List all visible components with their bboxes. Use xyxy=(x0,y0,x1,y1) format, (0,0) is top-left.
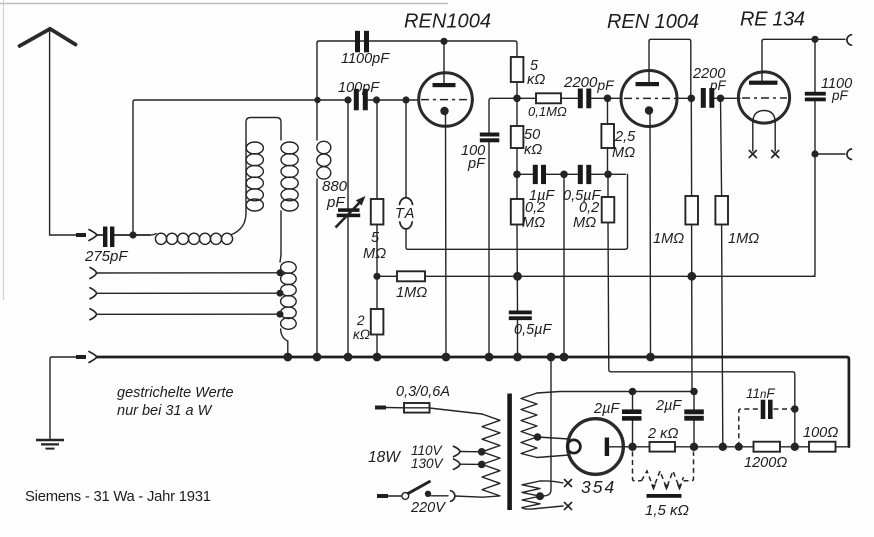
svg-text:REN 1004: REN 1004 xyxy=(607,11,700,33)
capacitor 2uF second xyxy=(684,392,704,447)
svg-text:1MΩ: 1MΩ xyxy=(728,231,759,247)
node bus heater drop xyxy=(547,353,556,362)
wire 110V tap xyxy=(460,451,482,453)
node antenna/tank riser xyxy=(129,231,136,238)
node L4 tap 2 xyxy=(277,290,284,297)
antenna terminal plug dash xyxy=(76,233,86,237)
wire ground lead xyxy=(50,357,76,440)
rectifier tube 354 xyxy=(567,419,632,475)
svg-text:RE 134: RE 134 xyxy=(740,9,806,31)
node TA branch xyxy=(402,96,409,103)
svg-text:2 κΩ: 2 κΩ xyxy=(647,426,678,442)
wire anode V2 to coupling cap xyxy=(649,39,691,98)
wire bus drop to heater tap xyxy=(541,357,551,496)
svg-text:1,5 κΩ: 1,5 κΩ xyxy=(645,502,689,519)
wire B+ riser right xyxy=(813,154,815,276)
wire 100pF to tube grid xyxy=(368,99,419,101)
node heater tap xyxy=(536,492,544,500)
capacitor 1100pF output xyxy=(805,39,826,154)
svg-text:Siemens - 31 Wa - Jahr 1931: Siemens - 31 Wa - Jahr 1931 xyxy=(25,489,211,505)
terminal jack 130V xyxy=(454,459,461,469)
resistor 1MOhm horizontal xyxy=(377,271,425,281)
wire grid line to C880 xyxy=(152,99,347,101)
wire heater bottom to x xyxy=(522,506,563,509)
scan border artifact top xyxy=(0,3,448,5)
wire winding end to filament bottom xyxy=(537,455,569,458)
node tap 110V xyxy=(478,448,486,456)
capacitor 1uF xyxy=(517,165,578,184)
capacitor 880pF variable xyxy=(336,196,366,228)
wire to switch xyxy=(388,495,402,497)
wire tap2 to terminal xyxy=(97,292,281,294)
svg-text:2200pF: 2200pF xyxy=(563,74,615,93)
svg-text:2µF: 2µF xyxy=(593,401,620,417)
svg-text:0,5µF: 0,5µF xyxy=(514,322,553,338)
resistor 100Ohm xyxy=(809,442,836,452)
terminal speaker bottom xyxy=(847,149,852,160)
node anode V1 xyxy=(440,38,447,45)
terminal jack tap3 xyxy=(90,309,97,320)
svg-text:pF: pF xyxy=(831,88,849,103)
x mark heater top xyxy=(565,480,572,487)
node B+ decoupling xyxy=(513,272,522,281)
svg-text:κΩ: κΩ xyxy=(527,72,545,88)
node L4 tap 1 xyxy=(277,269,284,276)
wire to 1200 xyxy=(723,446,754,448)
wire terminal to C1 xyxy=(97,234,103,236)
svg-text:MΩ: MΩ xyxy=(363,246,386,262)
wire anode V3 to output terminal xyxy=(762,39,845,41)
switch 220V xyxy=(402,481,483,501)
node output bottom xyxy=(811,150,818,157)
capacitor 2uF first xyxy=(622,392,642,447)
wire 130V tap xyxy=(460,463,482,465)
svg-text:100Ω: 100Ω xyxy=(803,425,838,441)
tube V2 REN1004 xyxy=(621,71,691,358)
node 5k bottom xyxy=(513,95,521,103)
wire fuse to primary xyxy=(430,408,483,414)
svg-text:220V: 220V xyxy=(410,500,446,516)
capacitor 0.5uF xyxy=(578,165,626,184)
wire HV top to rectifier line xyxy=(537,392,692,394)
node 1uF left xyxy=(513,171,521,179)
svg-text:1MΩ: 1MΩ xyxy=(396,285,427,301)
ground xyxy=(36,440,64,449)
wire tap3 to terminal xyxy=(97,313,281,315)
terminal jack 110V xyxy=(454,446,461,456)
mains terminal fuse dash xyxy=(375,406,386,410)
node grid return xyxy=(719,443,727,451)
resistor 1,5kOhm dashed ballast xyxy=(633,452,694,498)
node 2uF2 bottom xyxy=(690,443,698,451)
node cap midpoint xyxy=(560,171,568,179)
transformer HV heater winding xyxy=(521,393,537,458)
x mark heater bottom xyxy=(565,503,572,510)
terminal speaker top xyxy=(847,35,852,46)
svg-text:nur bei 31 a W: nur bei 31 a W xyxy=(117,403,213,419)
capacitor 275pF xyxy=(103,227,114,248)
resistor 1200Ohm xyxy=(754,442,781,452)
node bus 2k xyxy=(373,353,382,362)
svg-text:0,1MΩ: 0,1MΩ xyxy=(528,104,567,119)
node 11nF left xyxy=(735,443,743,451)
antenna coupling coil L1 xyxy=(150,229,240,244)
wire anode top rail xyxy=(317,41,517,57)
svg-text:1MΩ: 1MΩ xyxy=(653,231,684,247)
svg-text:2,5: 2,5 xyxy=(614,129,636,145)
svg-text:275pF: 275pF xyxy=(84,248,128,265)
antenna terminal socket chevron xyxy=(89,230,97,241)
wire antenna to terminal xyxy=(50,234,76,236)
svg-text:pF: pF xyxy=(326,194,345,211)
svg-text:1100pF: 1100pF xyxy=(341,51,390,67)
node grid V3 xyxy=(717,95,725,103)
transformer primary winding xyxy=(482,414,500,497)
svg-text:354: 354 xyxy=(581,477,616,497)
resistor 1MOhm grid leak V3 a xyxy=(685,98,698,391)
svg-text:MΩ: MΩ xyxy=(573,215,596,231)
capacitor 100pF grid xyxy=(354,89,368,111)
capacitor 0.5uF smoothing xyxy=(509,311,532,358)
svg-text:1200Ω: 1200Ω xyxy=(744,455,787,471)
capacitor 11nF dashed branch xyxy=(739,400,795,447)
node bias divider xyxy=(791,443,799,451)
terminal jack tap2 xyxy=(90,288,97,299)
wire 0.1M to 2200pF xyxy=(561,97,578,99)
svg-text:0,3/0,6A: 0,3/0,6A xyxy=(396,384,450,400)
node 11nF right xyxy=(791,405,799,413)
node HV tap xyxy=(534,433,542,441)
wire anode node row xyxy=(489,98,536,133)
svg-text:gestrichelte Werte: gestrichelte Werte xyxy=(117,385,234,401)
filament x mark V3 left xyxy=(749,151,756,158)
node tap 130V xyxy=(478,461,486,469)
resistor 0.1MOhm xyxy=(536,93,561,103)
wire tap1 to terminal xyxy=(97,272,281,274)
terminal jack tap1 xyxy=(90,268,97,279)
resistor 0.2MOhm second with bias feed xyxy=(602,174,795,446)
node bus L4 xyxy=(283,353,292,362)
svg-text:pF: pF xyxy=(709,78,727,93)
node coupling xyxy=(688,95,696,103)
svg-text:130V: 130V xyxy=(411,456,445,471)
svg-text:18W: 18W xyxy=(368,449,401,466)
bus terminal plug dash xyxy=(76,355,86,359)
node rectifier anode xyxy=(628,443,636,451)
wire to fuse xyxy=(386,407,404,409)
node bus L5 xyxy=(313,353,322,362)
wire divider xyxy=(780,446,809,448)
scan border artifact left xyxy=(3,0,5,300)
wire heater top to x xyxy=(540,481,563,483)
bus terminal socket chevron xyxy=(89,352,97,363)
node HV line right xyxy=(690,388,698,396)
resistor 5MOhm xyxy=(371,100,384,309)
resistor 5kOhm xyxy=(511,57,524,98)
wire 100Ohm to bus corner xyxy=(836,446,849,448)
filament x mark V3 right xyxy=(772,151,779,158)
node bus cathode V1 xyxy=(442,353,451,362)
node HV line left xyxy=(629,388,637,396)
fuse 0,3/0,6A xyxy=(404,403,430,413)
svg-text:880: 880 xyxy=(322,178,348,195)
mains terminal switch dash xyxy=(377,494,388,498)
main ground bus xyxy=(97,357,849,447)
wire L2-L3 top bridge xyxy=(246,118,281,142)
resistor 2kOhm filter xyxy=(633,442,723,452)
wire B+ rail xyxy=(425,275,815,277)
wire midpoint to bus xyxy=(563,174,565,357)
node bus cap midpoint xyxy=(560,353,569,362)
wire 2200pF to grid V2 xyxy=(591,97,622,99)
node grid V2 xyxy=(604,95,612,103)
svg-text:TA: TA xyxy=(395,206,416,222)
svg-text:MΩ: MΩ xyxy=(522,215,545,231)
capacitor 100pF bypass xyxy=(480,133,500,358)
wire 880pF branch xyxy=(347,100,349,357)
svg-text:0,2: 0,2 xyxy=(525,200,545,216)
wire C1 to antenna coil, junction node xyxy=(115,234,151,236)
wire tap to filament top xyxy=(538,437,570,439)
svg-text:2µF: 2µF xyxy=(655,398,682,414)
svg-text:5: 5 xyxy=(371,230,380,246)
svg-text:MΩ: MΩ xyxy=(612,145,635,161)
resistor 1MOhm grid leak V3 b xyxy=(715,98,728,446)
node L4 tap 3 xyxy=(277,311,284,318)
node bus 100pF bypass xyxy=(485,353,494,362)
node grid leak xyxy=(373,96,380,103)
svg-text:11nF: 11nF xyxy=(746,386,775,401)
tube V3 RE134 xyxy=(738,41,789,151)
node bus cathode V2 xyxy=(646,353,655,362)
node bus 0.5uF xyxy=(513,353,522,362)
resistor 2.5MOhm xyxy=(601,98,614,174)
node 880pF top xyxy=(344,96,351,103)
coil L2 primary winding xyxy=(240,141,263,229)
node 0.5uF right xyxy=(604,171,612,179)
wire riser up to grid line xyxy=(133,100,152,235)
node 1MOhm junction xyxy=(373,273,380,280)
capacitor 1100pF feedback xyxy=(355,31,369,53)
svg-text:pF: pF xyxy=(467,156,486,172)
antenna xyxy=(20,29,76,235)
node tank top xyxy=(314,97,320,103)
transformer heater winding tubes xyxy=(522,481,540,508)
capacitor 2200pF coupling 2 xyxy=(701,88,740,108)
coil L5 tuned grid coil xyxy=(317,43,331,357)
svg-text:κΩ: κΩ xyxy=(353,327,370,342)
transformer core xyxy=(507,394,512,511)
svg-text:50: 50 xyxy=(524,127,540,143)
wire bias box right edge xyxy=(625,174,628,249)
svg-text:REN1004: REN1004 xyxy=(404,11,492,33)
svg-text:2: 2 xyxy=(356,313,365,328)
tube V1 REN1004 xyxy=(419,43,474,357)
node B+ feed xyxy=(687,272,696,281)
wire to speaker bottom terminal xyxy=(815,153,845,155)
svg-text:0,2: 0,2 xyxy=(579,200,599,216)
resistor 2kOhm xyxy=(371,309,384,357)
jack TA xyxy=(400,100,626,249)
capacitor 2200pF coupling 1 xyxy=(578,89,592,109)
resistor 0.2MOhm first xyxy=(511,199,524,311)
resistor 50kOhm xyxy=(511,98,524,199)
node bus 880pF xyxy=(344,353,353,362)
coil L3 secondary upper xyxy=(281,142,298,255)
coil L4 tapped winding xyxy=(280,255,296,357)
svg-text:κΩ: κΩ xyxy=(524,142,542,158)
node output top xyxy=(811,36,818,43)
svg-text:100pF: 100pF xyxy=(338,80,380,96)
